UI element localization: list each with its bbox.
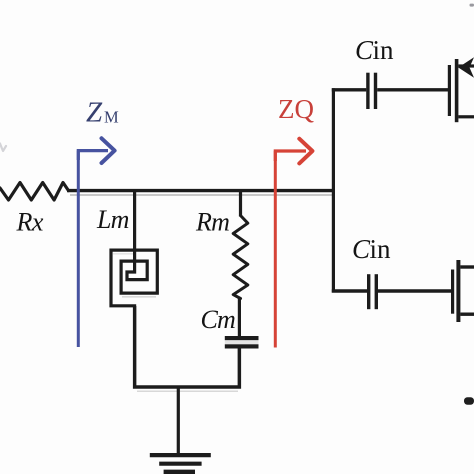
svg-text:Rx: Rx bbox=[16, 208, 44, 237]
capacitor Cin (lower) bbox=[367, 274, 452, 309]
svg-text:C: C bbox=[352, 234, 371, 264]
label Cin (upper) bbox=[355, 35, 394, 65]
inductor Lm (spiral) bbox=[111, 191, 157, 387]
svg-text:Z: Z bbox=[86, 96, 103, 128]
wire lower branch bbox=[332, 289, 367, 292]
capacitor Cin (upper) bbox=[366, 73, 448, 109]
stub mark bottom right bbox=[464, 397, 474, 404]
wire upper branch bbox=[332, 88, 367, 91]
svg-text:in: in bbox=[373, 35, 395, 65]
transistor M2 (lower) bbox=[451, 260, 474, 322]
label Cin (lower) bbox=[352, 234, 391, 264]
probe arrow Z_M (blue) bbox=[78, 138, 114, 347]
resistor Rm bbox=[233, 191, 248, 337]
transistor M1 (upper) bbox=[448, 57, 474, 122]
svg-text:M: M bbox=[104, 108, 119, 127]
svg-text:Cm: Cm bbox=[201, 305, 236, 334]
ground bbox=[150, 387, 211, 472]
svg-text:C: C bbox=[355, 35, 374, 65]
resistor Rx bbox=[0, 183, 69, 201]
stub mark top right bbox=[470, 4, 474, 7]
svg-text:Rm: Rm bbox=[195, 208, 229, 237]
probe arrow ZQ (red) bbox=[275, 139, 312, 348]
svg-text:in: in bbox=[370, 234, 392, 264]
svg-text:Lm: Lm bbox=[96, 205, 129, 234]
wire bottom rail bbox=[135, 306, 240, 391]
source stub mark at left edge bbox=[0, 144, 6, 152]
wire main rail bbox=[67, 191, 335, 195]
wire tee junction vertical bbox=[332, 88, 335, 292]
label Z_M bbox=[86, 96, 119, 128]
svg-text:ZQ: ZQ bbox=[278, 94, 314, 124]
capacitor Cm bbox=[225, 336, 259, 388]
